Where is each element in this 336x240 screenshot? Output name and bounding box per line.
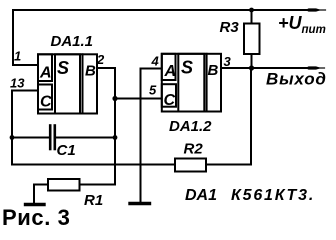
wire top +U rail <box>13 9 308 11</box>
wire pin2 down middle vertical <box>97 68 115 185</box>
node junction C1 left <box>10 135 15 140</box>
wire R1 right lead <box>80 184 116 186</box>
wire R3 bottom lead <box>251 54 253 68</box>
node junction C1 right <box>113 135 118 140</box>
op-amp U1 DA1.1 outer box <box>38 54 97 113</box>
ground left bar <box>26 203 45 206</box>
svg-text:R3: R3 <box>220 19 240 36</box>
resistor R2 body <box>175 159 206 172</box>
svg-text:1: 1 <box>14 49 21 64</box>
wire +U arrow tail <box>318 9 326 11</box>
arrowhead +U <box>306 8 322 11</box>
svg-text:3: 3 <box>224 54 232 69</box>
resistor R1 body <box>48 179 80 191</box>
DA1.1 pin A box <box>38 54 52 81</box>
svg-text:S: S <box>181 58 193 78</box>
arrowhead output <box>306 66 322 69</box>
svg-text:DA1.1: DA1.1 <box>51 33 94 50</box>
DA1.1 S box <box>55 54 80 113</box>
wire pin13 to left vertical down to bottom rail <box>12 91 175 165</box>
wire output arrow tail <box>318 67 325 69</box>
DA1.2 pin A box <box>162 54 176 80</box>
wire C1 left segment <box>12 137 49 139</box>
svg-text:C: C <box>40 94 52 111</box>
svg-text:C: C <box>164 92 176 109</box>
wire R2 right lead up to output node <box>206 68 251 165</box>
wire top-left vertical to pin1 <box>13 10 37 65</box>
svg-text:A: A <box>164 63 177 80</box>
svg-text:S: S <box>57 58 69 78</box>
svg-text:B: B <box>85 63 96 80</box>
svg-text:C1: C1 <box>57 142 76 159</box>
node junction output <box>249 65 254 70</box>
svg-text:DA1: DA1 <box>185 187 217 204</box>
svg-text:A: A <box>39 65 52 82</box>
DA1.2 pin C box <box>162 84 176 107</box>
svg-text:B: B <box>208 62 219 79</box>
DA1.2 B divider <box>206 54 208 112</box>
svg-text:R2: R2 <box>184 141 204 158</box>
wire pin3 to output arrow <box>221 67 308 69</box>
svg-text:13: 13 <box>10 76 25 91</box>
node junction top rail / R3 <box>249 8 254 13</box>
wire R3 top lead <box>251 10 253 24</box>
svg-text:Выход: Выход <box>266 70 327 89</box>
DA1.1 pin C box <box>38 85 52 110</box>
wire pin4 L to ground vertical <box>141 69 163 203</box>
svg-text:R1: R1 <box>84 192 103 209</box>
resistor R3 body <box>244 24 260 55</box>
capacitor C1 <box>50 126 55 150</box>
svg-text:+Uпит: +Uпит <box>278 13 326 36</box>
svg-text:5: 5 <box>149 83 157 98</box>
wire R1 left lead to ground <box>34 185 48 204</box>
node junction pin2/pin5 <box>112 96 117 101</box>
svg-text:Рис. 3: Рис. 3 <box>2 205 71 228</box>
ground right bar <box>130 202 150 205</box>
wire C1 right segment <box>56 137 115 139</box>
DA1.2 S box <box>178 54 204 112</box>
svg-text:К561КТ3.: К561КТ3. <box>231 187 315 204</box>
svg-text:2: 2 <box>96 52 105 67</box>
svg-text:4: 4 <box>151 54 160 69</box>
op-amp U2 DA1.2 outer box <box>162 54 221 112</box>
wire pin5 horizontal <box>115 98 162 100</box>
svg-text:DA1.2: DA1.2 <box>169 118 212 135</box>
DA1.1 B divider <box>82 54 84 113</box>
